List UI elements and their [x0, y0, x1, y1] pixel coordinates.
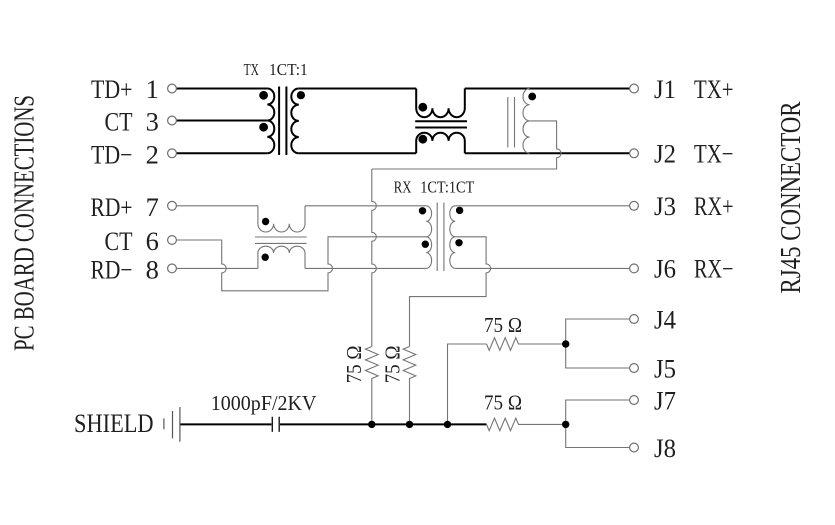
junction dot node B on bus: [406, 421, 413, 428]
terminal pin 3: [168, 116, 177, 125]
svg-text:TX−: TX−: [694, 139, 734, 169]
terminal pin 1: [168, 84, 177, 93]
wire choke L3 to T2 primary top: [305, 205, 426, 207]
common-mode choke L1 core: [415, 121, 467, 127]
polarity dot T1 secondary: [297, 91, 305, 99]
svg-text:RD+: RD+: [91, 192, 133, 222]
wire choke L3 to T2 primary bottom: [305, 267, 426, 269]
terminal pin 8: [168, 264, 177, 273]
junction dot node C on bus: [444, 421, 451, 428]
terminal J3: [630, 201, 639, 210]
svg-text:3: 3: [146, 107, 159, 137]
svg-text:1CT:1CT: 1CT:1CT: [420, 178, 474, 197]
svg-text:6: 6: [146, 226, 159, 256]
svg-text:J1: J1: [654, 74, 676, 104]
terminal pin 2: [168, 149, 177, 158]
wire T1 secondary bottom to choke L1: [299, 152, 416, 154]
wire T2 center tap with hop over J6 wire, to node B: [410, 237, 491, 347]
wire CT pin3 to T1 primary center tap: [176, 120, 267, 122]
svg-text:RD−: RD−: [91, 255, 133, 285]
transformer T2 primary winding upper: [426, 206, 431, 237]
svg-text:J7: J7: [654, 385, 676, 415]
svg-text:J5: J5: [654, 353, 676, 383]
terminal J6: [630, 264, 639, 273]
svg-text:TD+: TD+: [91, 74, 133, 104]
terminal J7: [630, 396, 639, 405]
transformer T2 core: [437, 203, 444, 272]
svg-text:1: 1: [146, 74, 159, 104]
svg-text:8: 8: [146, 255, 159, 285]
svg-text:RX: RX: [394, 178, 412, 197]
wire T1 secondary top to choke L1: [299, 88, 416, 90]
svg-text:1000pF/2KV: 1000pF/2KV: [211, 391, 317, 415]
svg-text:PC BOARD CONNECTIONS: PC BOARD CONNECTIONS: [9, 95, 40, 351]
wire CT pin6 bypass under choke with hops, to T2 center tap: [176, 237, 426, 291]
transformer T1 secondary winding: [291, 89, 299, 154]
svg-text:J3: J3: [654, 191, 676, 221]
wire TD- pin2 to T1 primary: [176, 152, 267, 154]
autotransformer L2 winding: [523, 89, 530, 154]
svg-text:J4: J4: [654, 304, 676, 334]
polarity dot T2 primary lower: [422, 241, 429, 248]
wire RD- pin8 to choke L3: [176, 267, 258, 269]
terminal J4: [630, 315, 639, 324]
svg-text:RX−: RX−: [694, 254, 734, 284]
terminal pin 7: [168, 201, 177, 210]
wire fork to J7 and J8: [566, 400, 630, 448]
wire fork to J4 and J5: [566, 319, 630, 368]
polarity dot T2 secondary lower: [455, 239, 462, 246]
polarity dot T1 primary lower: [259, 123, 268, 132]
terminal J2: [630, 149, 639, 158]
common-mode choke L1 bottom winding: [416, 133, 465, 154]
polarity dot T2 primary upper: [419, 207, 426, 214]
svg-text:2: 2: [146, 140, 159, 170]
polarity dot choke L3 top: [262, 218, 269, 225]
transformer T2 secondary winding upper: [450, 206, 455, 237]
polarity dot choke L3 bottom: [262, 254, 269, 261]
junction dot node A on bus: [368, 421, 375, 428]
svg-text:J6: J6: [654, 254, 676, 284]
shield bus wire right of capacitor: [280, 423, 487, 425]
junction dot J7/J8 fork: [562, 421, 569, 428]
svg-text:75 Ω: 75 Ω: [342, 346, 366, 384]
svg-text:J8: J8: [654, 433, 676, 463]
wire RD+ pin7 to choke L3: [176, 205, 258, 207]
wire bus to resistor R3: [448, 344, 487, 424]
wire choke L1 to J2: [465, 152, 630, 154]
polarity dot T1 primary upper: [259, 91, 268, 100]
polarity dot T2 secondary upper: [456, 207, 463, 214]
svg-text:1CT:1: 1CT:1: [269, 60, 308, 79]
autotransformer L2 core: [508, 97, 515, 148]
wire T2 secondary bottom to J6: [455, 267, 629, 269]
transformer T1 core: [279, 87, 286, 156]
wire L2 center tap with hop over J2 wire: [372, 121, 561, 169]
resistor R2 75 ohm: [403, 347, 416, 425]
common-mode choke L3 bottom winding: [258, 246, 305, 268]
terminal J5: [630, 364, 639, 373]
svg-text:75 Ω: 75 Ω: [484, 391, 522, 415]
transformer T1 primary winding upper: [267, 89, 274, 121]
resistor R1 75 ohm: [366, 347, 379, 425]
polarity dot choke L1 bottom: [418, 135, 427, 144]
terminal J8: [630, 443, 639, 452]
svg-text:75 Ω: 75 Ω: [484, 313, 522, 337]
svg-text:7: 7: [146, 192, 159, 222]
resistor R4 75 ohm: [487, 418, 566, 431]
common-mode choke L3 core: [255, 237, 307, 243]
common-mode choke L1 top winding: [416, 89, 465, 118]
transformer T2 primary winding lower: [426, 237, 431, 269]
wire TD+ pin1 to T1 primary: [176, 88, 267, 90]
polarity dot autotransformer L2: [528, 93, 536, 101]
resistor R3 75 ohm: [487, 338, 566, 351]
shield bus wire left of capacitor: [180, 423, 271, 425]
svg-text:TX+: TX+: [694, 74, 734, 104]
terminal pin 6: [168, 236, 177, 245]
transformer T1 primary winding lower: [267, 121, 274, 154]
polarity dot choke L1 top: [418, 103, 427, 112]
transformer T2 secondary winding lower: [450, 237, 455, 269]
svg-text:SHIELD: SHIELD: [74, 408, 154, 438]
common-mode choke L3 top winding: [258, 206, 305, 232]
svg-text:RX+: RX+: [694, 191, 734, 221]
terminal J1: [630, 84, 639, 93]
svg-text:J2: J2: [654, 139, 676, 169]
svg-text:TD−: TD−: [91, 140, 133, 170]
wire choke L1 to J1: [465, 88, 630, 90]
svg-text:CT: CT: [105, 107, 133, 137]
svg-text:RJ45 CONNECTOR: RJ45 CONNECTOR: [776, 102, 807, 294]
svg-text:75 Ω: 75 Ω: [381, 346, 405, 384]
junction dot J4/J5 fork: [562, 340, 569, 347]
shield terminal symbol: [164, 407, 180, 442]
svg-text:TX: TX: [244, 60, 259, 79]
svg-text:CT: CT: [105, 226, 133, 256]
capacitor C1 plates: [272, 417, 279, 432]
wire node A vertical to resistor R1 with hops over RX wires: [372, 169, 377, 347]
wire T2 secondary top to J3: [455, 205, 629, 207]
